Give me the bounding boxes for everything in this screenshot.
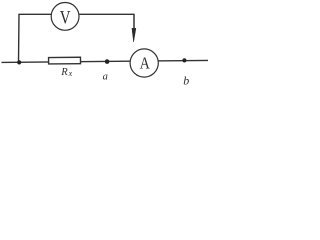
svg-text:V: V xyxy=(60,7,71,28)
junction dot (left) xyxy=(17,60,21,64)
voltmeter U-V circle xyxy=(51,3,79,31)
node a dot xyxy=(105,59,110,64)
svg-text:Rx: Rx xyxy=(60,67,72,78)
arrowhead pointing down xyxy=(132,28,136,42)
resistor Rx box xyxy=(49,57,81,64)
node b dot xyxy=(182,58,186,62)
ammeter A circle xyxy=(130,49,158,77)
svg-text:b: b xyxy=(183,74,189,88)
wire: top horizontal xyxy=(18,13,134,15)
wire: bottom horizontal xyxy=(2,60,209,62)
svg-text:A: A xyxy=(140,55,150,73)
wire: arrow shaft down from top-right corner xyxy=(133,14,135,30)
wire: left vertical xyxy=(18,14,21,62)
svg-text:a: a xyxy=(103,72,108,83)
